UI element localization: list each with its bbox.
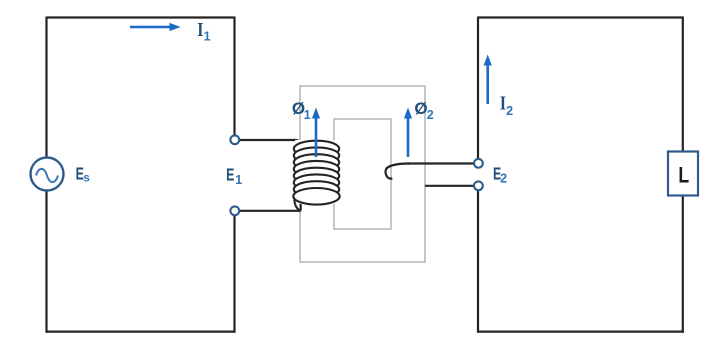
label ES bbox=[76, 165, 90, 185]
wire: E1 top lead to primary coil bbox=[239, 140, 300, 144]
label I1 bbox=[197, 18, 210, 43]
svg-text:s: s bbox=[83, 172, 89, 184]
wire: left loop top bbox=[47, 16, 235, 18]
wire: right loop bottom bbox=[478, 331, 684, 333]
wire: right loop right vertical below load bbox=[682, 196, 684, 333]
transformer core inner window bbox=[334, 119, 391, 229]
svg-text:2: 2 bbox=[506, 104, 513, 118]
svg-text:2: 2 bbox=[427, 108, 434, 122]
terminal E2 bottom node bbox=[474, 181, 483, 190]
label E2 bbox=[493, 165, 507, 186]
current arrow I1 bbox=[130, 23, 181, 31]
wire: left loop right vertical down to E1 top terminal bbox=[233, 17, 235, 136]
white mask hiding core lines behind primary coil bbox=[295, 140, 338, 204]
wire: right loop left vertical above E2 top terminal bbox=[477, 17, 479, 160]
terminal E1 top node bbox=[230, 135, 239, 144]
wire: right loop right vertical to load bbox=[682, 17, 684, 152]
svg-text:Ø: Ø bbox=[414, 99, 427, 118]
wire: right loop top bbox=[478, 16, 683, 18]
svg-text:1: 1 bbox=[235, 173, 242, 187]
label phi1 bbox=[292, 99, 311, 122]
wire: right loop left vertical below E2 bottom terminal bbox=[477, 191, 479, 333]
flux arrow phi2 bbox=[404, 108, 412, 158]
svg-text:E: E bbox=[226, 165, 234, 185]
svg-text:I: I bbox=[197, 18, 203, 40]
svg-text:2: 2 bbox=[500, 172, 507, 186]
wire: left loop bottom bbox=[46, 331, 235, 333]
terminal E2 top node bbox=[474, 159, 483, 168]
svg-text:L: L bbox=[678, 163, 689, 188]
current arrow I2 bbox=[484, 55, 492, 105]
wire: left loop right vertical from E1 bottom terminal bbox=[233, 216, 235, 333]
terminal E1 bottom node bbox=[230, 206, 239, 215]
wire: secondary top lead to E2 top terminal bbox=[408, 162, 474, 164]
wire: left loop left vertical below source bbox=[45, 191, 47, 333]
primary winding coil L1 bbox=[293, 141, 339, 211]
secondary winding turn around right core leg bbox=[386, 164, 411, 179]
wire: left loop left vertical above source bbox=[45, 17, 47, 158]
flux arrow phi1 bbox=[312, 108, 320, 158]
svg-text:1: 1 bbox=[204, 30, 211, 44]
wire: secondary bottom lead from core to E2 bottom terminal bbox=[425, 185, 474, 187]
label I2 bbox=[500, 92, 513, 118]
wire: E1 bottom lead from primary coil bbox=[239, 203, 301, 211]
transformer core outer outline bbox=[300, 86, 425, 262]
label phi2 bbox=[414, 99, 433, 122]
ac source ES bbox=[31, 158, 64, 191]
label E1 bbox=[226, 165, 242, 186]
svg-text:1: 1 bbox=[304, 108, 311, 122]
load L bbox=[668, 152, 698, 196]
